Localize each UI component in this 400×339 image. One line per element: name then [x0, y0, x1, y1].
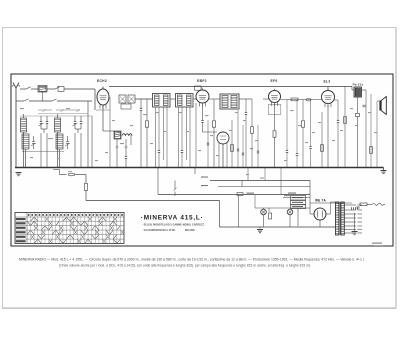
svg-text:EL3: EL3: [324, 80, 331, 84]
svg-text:MINERVA RADIO — Mod. 415 L + 4: MINERVA RADIO — Mod. 415 L + 4 1951. — C…: [19, 258, 365, 262]
svg-text:· VIA DOMODOSSOLA 45 MI.: · VIA DOMODOSSOLA 45 MI.: [142, 229, 176, 232]
svg-text:WE 7A: WE 7A: [315, 199, 327, 203]
svg-text:EBF2: EBF2: [197, 79, 207, 83]
svg-text:·MINERVA 415,L·: ·MINERVA 415,L·: [141, 215, 204, 222]
svg-text:ECH2: ECH2: [97, 79, 107, 83]
svg-text:· SELEN. MONOTELAIO 5 GAMME MO: · SELEN. MONOTELAIO 5 GAMME MOBILI CARRO…: [142, 224, 205, 227]
svg-text:(Onde volume anche per i mod.: (Onde volume anche per i mod. a DDL, 415…: [59, 264, 311, 268]
svg-text:Pa 21v: Pa 21v: [353, 83, 364, 87]
svg-text:EF9: EF9: [271, 79, 278, 83]
svg-text:MILANO: MILANO: [185, 229, 195, 232]
